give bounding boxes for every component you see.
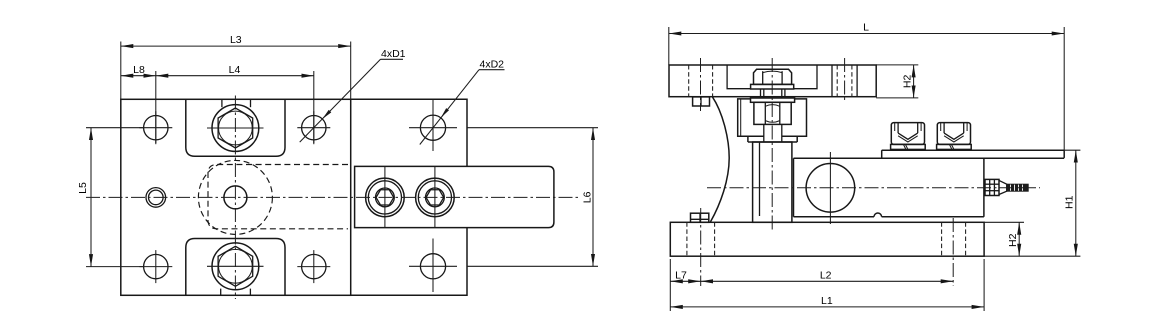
- svg-text:4xD1: 4xD1: [381, 48, 406, 60]
- svg-text:L6: L6: [582, 191, 594, 203]
- svg-text:H2: H2: [902, 75, 914, 89]
- svg-text:L7: L7: [675, 269, 687, 281]
- svg-text:L1: L1: [821, 295, 833, 307]
- svg-text:L4: L4: [229, 64, 241, 76]
- svg-text:L5: L5: [77, 182, 89, 194]
- svg-text:4xD2: 4xD2: [480, 59, 505, 71]
- svg-text:L: L: [863, 22, 869, 34]
- svg-text:H2: H2: [1007, 233, 1019, 247]
- svg-text:L2: L2: [820, 269, 832, 281]
- svg-text:L8: L8: [133, 64, 145, 76]
- svg-text:L3: L3: [230, 34, 242, 46]
- svg-text:H1: H1: [1064, 195, 1076, 209]
